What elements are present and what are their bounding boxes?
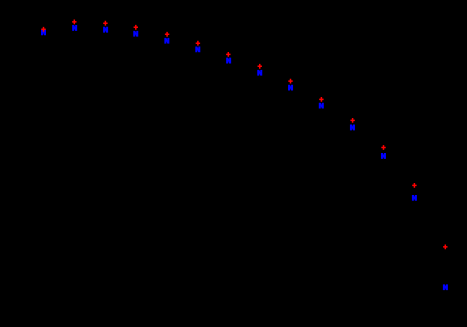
atom N14 (quaternary nitrogen label) xyxy=(443,284,448,290)
charge + on N6 xyxy=(196,41,200,46)
charge + on N10 xyxy=(319,97,323,102)
charge + on N2 xyxy=(72,20,76,25)
atom N13 (quaternary nitrogen label) xyxy=(412,195,417,201)
charge + on N14 xyxy=(443,245,447,250)
atom N12 (quaternary nitrogen label) xyxy=(381,153,386,159)
atom N2 (quaternary nitrogen label) xyxy=(72,25,77,31)
atom N6 (quaternary nitrogen label) xyxy=(195,47,200,53)
atom N10 (quaternary nitrogen label) xyxy=(319,103,324,109)
charge + on N8 xyxy=(258,64,262,69)
charge + on N13 xyxy=(412,183,416,188)
charge + on N9 xyxy=(288,79,292,84)
charge + on N7 xyxy=(226,52,230,57)
atom N8 (quaternary nitrogen label) xyxy=(257,70,262,76)
atom N7 (quaternary nitrogen label) xyxy=(226,58,231,64)
atom N4 (quaternary nitrogen label) xyxy=(133,31,138,37)
atom N5 (quaternary nitrogen label) xyxy=(164,38,169,44)
atom N11 (quaternary nitrogen label) xyxy=(350,125,355,131)
atom N1 (quaternary nitrogen label) xyxy=(41,30,46,36)
charge + on N11 xyxy=(350,118,354,123)
charge + on N5 xyxy=(165,32,169,37)
charge + on N12 xyxy=(381,145,385,150)
charge + on N1 xyxy=(41,27,45,32)
atom N3 (quaternary nitrogen label) xyxy=(103,27,108,33)
atom N9 (quaternary nitrogen label) xyxy=(288,85,293,91)
charge + on N3 xyxy=(103,21,107,26)
charge + on N4 xyxy=(134,25,138,30)
